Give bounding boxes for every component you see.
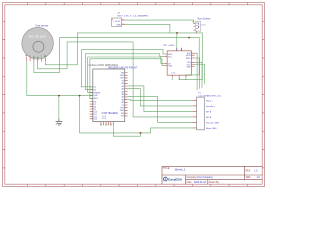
wire U2 right wrap d bbox=[195, 65, 205, 84]
IC bottom pins bbox=[101, 122, 113, 126]
svg-text:D13: D13 bbox=[94, 119, 97, 121]
frame ticks right bbox=[262, 21, 264, 168]
IC left pins bbox=[90, 87, 93, 119]
junction on net at y37 bbox=[188, 37, 190, 39]
svg-text:CSN: CSN bbox=[168, 65, 173, 67]
wire RF module pin1 to gyro bbox=[125, 20, 195, 23]
wire U2 right wrap c bbox=[195, 62, 202, 88]
wire IC left pin D3 to U2 left pin2 bbox=[85, 54, 164, 90]
RF module U3 bbox=[112, 13, 149, 27]
svg-text:5: 5 bbox=[111, 124, 112, 126]
wire sensor pin4 staircase to U2 bottom via far right bbox=[45, 33, 202, 80]
svg-text:3V3: 3V3 bbox=[121, 116, 124, 118]
wire sensor pin2 staircase to U2 bottom bbox=[34, 38, 199, 78]
svg-text:3: 3 bbox=[107, 124, 108, 126]
radio module U2 bbox=[164, 45, 195, 79]
junction at bottom loop bbox=[140, 132, 142, 134]
svg-text:GND: GND bbox=[120, 75, 125, 77]
svg-text:GND: GND bbox=[116, 25, 121, 27]
wire branch under IC to connector pin6 bbox=[80, 96, 193, 133]
wire IC left pin D2 to U2 left pin1 bbox=[81, 50, 164, 87]
U2 right pins bbox=[191, 53, 194, 66]
svg-text:INT A: INT A bbox=[206, 116, 212, 119]
svg-text:MQ-135 GAS: MQ-135 GAS bbox=[29, 34, 46, 38]
wire IC right to connector pin1 bbox=[128, 99, 193, 102]
svg-text:Company:: Company: bbox=[187, 177, 198, 179]
svg-text:1 2 3: 1 2 3 bbox=[171, 73, 175, 75]
svg-text:A4: A4 bbox=[122, 93, 124, 96]
svg-text:PWR/A: PWR/A bbox=[94, 91, 101, 94]
junction at ground branch bbox=[58, 95, 60, 97]
svg-text:Your Company: Your Company bbox=[197, 176, 214, 179]
svg-text:MISO: MISO bbox=[186, 58, 191, 60]
header P1 bbox=[192, 93, 221, 130]
wire IC right to connector pin5 bbox=[128, 97, 193, 123]
svg-text:A1: A1 bbox=[122, 85, 124, 88]
gas sensor U1 bbox=[22, 25, 54, 60]
svg-text:VER:: VER: bbox=[246, 177, 252, 179]
U2 bottom pins bbox=[172, 75, 186, 77]
svg-text:GND: GND bbox=[120, 110, 125, 112]
IC pin labels left bbox=[94, 87, 101, 121]
svg-text:Sheet_1: Sheet_1 bbox=[175, 167, 187, 171]
svg-text:2: 2 bbox=[29, 56, 30, 58]
svg-text:A2: A2 bbox=[122, 88, 124, 91]
svg-text:Encoder +: Encoder + bbox=[206, 105, 216, 108]
svg-text:Encoder GND: Encoder GND bbox=[206, 121, 219, 124]
EasyEDA logo bbox=[164, 177, 183, 181]
svg-text:D2: D2 bbox=[94, 87, 96, 89]
svg-text:Date:: Date: bbox=[187, 181, 193, 184]
IC pin labels right bbox=[120, 72, 125, 117]
svg-text:2023-01-02: 2023-01-02 bbox=[194, 181, 207, 184]
gyro sensor U4 bbox=[193, 18, 211, 34]
IC right pins bbox=[125, 73, 128, 116]
svg-text:REV:: REV: bbox=[246, 170, 252, 172]
svg-text:A7: A7 bbox=[122, 101, 124, 104]
svg-text:A6: A6 bbox=[122, 98, 124, 101]
wire branch to U2 top pin bbox=[176, 33, 178, 48]
junction at under-IC branch bbox=[79, 95, 81, 97]
svg-text:5V/D: 5V/D bbox=[94, 95, 99, 97]
svg-text:1 LS-07: 1 LS-07 bbox=[113, 21, 121, 23]
svg-text:MOSI: MOSI bbox=[186, 55, 191, 57]
wire IC left pin D5 to U2 left pin4 bbox=[90, 59, 164, 99]
svg-text:INT B: INT B bbox=[206, 111, 212, 113]
svg-text:ARDUINO UNO R3 PINOUT: ARDUINO UNO R3 PINOUT bbox=[108, 66, 138, 69]
svg-text:Drawn By:: Drawn By: bbox=[209, 181, 220, 184]
svg-text:Conn BOARD WH_smd: Conn BOARD WH_smd bbox=[198, 94, 221, 97]
svg-text:TITLE:: TITLE: bbox=[163, 168, 170, 170]
svg-text:E07 1-8v-T_12_868MHz: E07 1-8v-T_12_868MHz bbox=[118, 15, 149, 17]
wire sensor pin3 staircase to connector pin4 bbox=[38, 42, 193, 117]
wire IC bottom pin loop bbox=[113, 125, 140, 136]
U2 left pins bbox=[164, 54, 167, 66]
wire IC left pin D4 to U2 left pin3 bbox=[88, 57, 165, 93]
svg-text:ICSP HEADER: ICSP HEADER bbox=[102, 112, 118, 115]
sheet border frame bbox=[3, 3, 265, 187]
svg-text:GND: GND bbox=[186, 66, 191, 68]
wire U2 right wrap a bbox=[195, 53, 197, 90]
wire U2 right wrap b bbox=[195, 58, 200, 89]
svg-text:nRF24: nRF24 bbox=[169, 45, 175, 47]
sensor U1 pins bbox=[26, 57, 45, 63]
svg-text:4001: 4001 bbox=[201, 24, 207, 26]
frame ticks left bbox=[3, 21, 5, 168]
wire sensor pin1 to IC net bbox=[27, 61, 93, 96]
svg-text:1: 1 bbox=[102, 124, 103, 126]
svg-text:6: 6 bbox=[45, 55, 46, 57]
U2 top pin stubs bbox=[177, 48, 182, 51]
svg-text:EasyEDA: EasyEDA bbox=[168, 177, 183, 181]
svg-text:5: 5 bbox=[41, 56, 42, 58]
frame ticks bottom bbox=[28, 185, 248, 187]
junction on net at y33 bbox=[176, 32, 178, 34]
svg-text:Gyro Sensor: Gyro Sensor bbox=[197, 18, 210, 21]
svg-text:U3: U3 bbox=[118, 13, 120, 15]
wire RF module pin2 drop bbox=[125, 24, 170, 33]
frame ticks top bbox=[28, 3, 248, 5]
svg-text:Motor GND: Motor GND bbox=[206, 127, 217, 130]
title block bbox=[162, 166, 262, 184]
svg-text:A5: A5 bbox=[122, 96, 124, 99]
wire to ground bbox=[58, 96, 60, 119]
svg-text:A3: A3 bbox=[122, 90, 124, 93]
svg-text:Motor +: Motor + bbox=[206, 99, 214, 102]
wire IC right to connector pin2 bbox=[128, 89, 193, 106]
svg-text:Gas sensor: Gas sensor bbox=[36, 25, 49, 28]
ground bbox=[56, 119, 63, 126]
MCU board U5 Arduino UNO bbox=[89, 64, 139, 122]
svg-text:D3: D3 bbox=[94, 89, 96, 91]
wire IC right to connector pin3 bbox=[128, 86, 193, 112]
svg-text:VCC: VCC bbox=[168, 56, 173, 58]
svg-text:A0: A0 bbox=[122, 82, 124, 85]
svg-text:A-D5: A-D5 bbox=[94, 97, 98, 100]
